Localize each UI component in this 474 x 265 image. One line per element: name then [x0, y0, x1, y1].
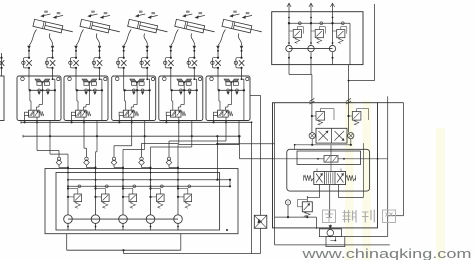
svg-text:www.chinaqking.com: www.chinaqking.com — [301, 246, 471, 260]
